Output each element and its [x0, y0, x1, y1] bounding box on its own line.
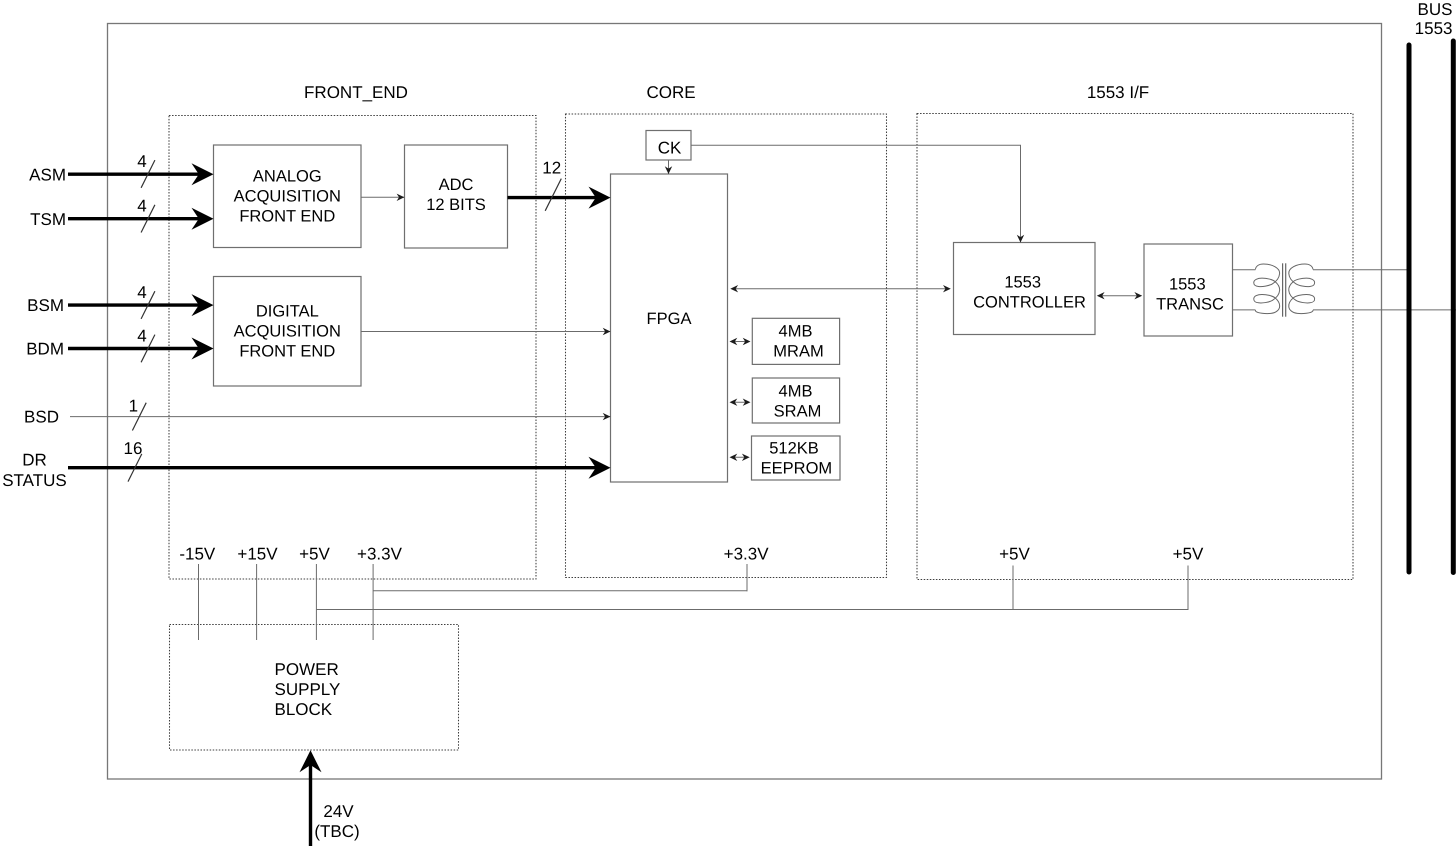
wire TSM thick arrow into analog front end — [68, 208, 214, 230]
block 4MB SRAM — [752, 378, 839, 423]
power wire +5V vertical — [315, 564, 317, 640]
wire CK to 1553 CONTROLLER (right then down) — [691, 145, 1024, 242]
wire transformer to bus bottom — [1313, 309, 1456, 311]
svg-text:BSM: BSM — [27, 296, 64, 315]
block 512KB EEPROM — [752, 436, 841, 480]
transformer T1 right winding (mirror) — [1289, 264, 1315, 314]
svg-text:ANALOG: ANALOG — [253, 168, 322, 186]
svg-text:1553: 1553 — [1169, 275, 1206, 293]
wire DR STATUS thick arrow into FPGA — [68, 457, 611, 479]
region 1553 I/F dotted box — [917, 114, 1353, 580]
wire CK down into FPGA — [665, 160, 672, 174]
block CK — [646, 131, 691, 161]
svg-text:CK: CK — [658, 139, 682, 158]
block DIGITAL ACQUISITION FRONT END — [214, 277, 362, 387]
wire 24V thick arrow into power supply — [300, 750, 322, 846]
power wire +5V I/F left vertical — [1012, 566, 1014, 611]
svg-text:4MB: 4MB — [779, 323, 813, 341]
svg-text:4: 4 — [137, 327, 146, 346]
block POWER SUPPLY BLOCK (dotted) — [170, 625, 459, 751]
svg-text:+15V: +15V — [237, 544, 278, 563]
outer board frame — [108, 24, 1382, 780]
block 4MB MRAM — [752, 318, 839, 364]
block 1553 TRANSC — [1144, 244, 1233, 336]
svg-text:+5V: +5V — [1173, 544, 1204, 563]
bus tick slash (BSM) — [141, 291, 155, 319]
block ANALOG ACQUISITION FRONT END — [214, 145, 362, 248]
block 1553 CONTROLLER — [954, 243, 1096, 335]
svg-text:DR: DR — [22, 451, 47, 470]
svg-text:POWER: POWER — [275, 660, 339, 679]
svg-text:+5V: +5V — [299, 544, 330, 563]
power wire +3.3V core vertical — [746, 564, 748, 591]
region CORE dotted box — [566, 114, 887, 578]
svg-text:MRAM: MRAM — [773, 343, 823, 361]
svg-text:TRANSC: TRANSC — [1156, 295, 1224, 313]
svg-text:4: 4 — [137, 152, 146, 171]
svg-text:4: 4 — [137, 283, 146, 302]
wire ANALOG to ADC thin arrow — [361, 194, 405, 201]
region FRONT_END dotted box — [169, 116, 536, 580]
transformer T1 left winding — [1254, 264, 1280, 314]
wire FPGA to 1553 CONTROLLER double arrow — [730, 285, 951, 292]
wire transformer to bus top — [1313, 269, 1409, 271]
svg-text:12: 12 — [542, 159, 561, 178]
svg-text:SUPPLY: SUPPLY — [275, 680, 341, 699]
wire ASM thick arrow into analog front end — [68, 163, 214, 185]
svg-text:+3.3V: +3.3V — [724, 544, 770, 563]
svg-text:16: 16 — [124, 439, 143, 458]
svg-text:512KB: 512KB — [769, 439, 819, 457]
svg-text:+5V: +5V — [999, 544, 1030, 563]
wire BSM thick arrow into digital front end — [68, 294, 214, 316]
power wire +3.3V horizontal link — [373, 590, 747, 592]
wire FPGA to MRAM double arrow — [730, 338, 751, 345]
svg-text:24V: 24V — [323, 802, 354, 821]
svg-text:SRAM: SRAM — [774, 402, 822, 420]
svg-text:FRONT END: FRONT END — [239, 343, 335, 361]
svg-text:(TBC): (TBC) — [314, 822, 359, 841]
block FPGA — [611, 174, 728, 482]
wire FPGA to SRAM double arrow — [730, 399, 751, 406]
svg-text:ACQUISITION: ACQUISITION — [234, 323, 341, 341]
power wire +5V horizontal link — [316, 609, 1188, 611]
power wire +15V — [256, 564, 258, 640]
wire BSD thin arrow into FPGA — [70, 413, 611, 420]
transformer T1 core bars — [1282, 263, 1284, 316]
power wire -15V — [198, 564, 200, 640]
svg-text:1553: 1553 — [1004, 273, 1041, 291]
BUS 1553 stub line B — [1451, 41, 1456, 573]
BUS 1553 stub line A — [1407, 45, 1412, 572]
svg-text:EEPROM: EEPROM — [761, 459, 833, 477]
bus tick slash (BSD) — [132, 403, 146, 431]
svg-text:CONTROLLER: CONTROLLER — [973, 293, 1086, 311]
power wire +3.3V vertical — [372, 564, 374, 640]
svg-text:BUS: BUS — [1418, 0, 1453, 19]
bus tick slash (TSM) — [141, 205, 155, 233]
wire 1553 CONTROLLER to 1553 TRANSC double arrow — [1097, 292, 1142, 299]
bus tick slash (BDM) — [141, 335, 155, 363]
svg-text:-15V: -15V — [179, 544, 216, 563]
svg-text:4MB: 4MB — [779, 382, 813, 400]
wire ADC to FPGA thick 12-bit bus — [508, 187, 611, 209]
bus tick slash (ASM) — [141, 160, 155, 188]
svg-text:12 BITS: 12 BITS — [426, 196, 486, 214]
svg-text:STATUS: STATUS — [2, 471, 67, 490]
wire BDM thick arrow into digital front end — [68, 338, 214, 360]
svg-text:+3.3V: +3.3V — [357, 544, 403, 563]
svg-text:CORE: CORE — [646, 83, 695, 102]
wire TRANSC to transformer bottom — [1233, 309, 1256, 311]
svg-text:1553 I/F: 1553 I/F — [1087, 83, 1149, 102]
svg-text:TSM: TSM — [30, 210, 66, 229]
bus tick slash (DR STATUS) — [128, 454, 142, 482]
svg-text:1553: 1553 — [1415, 19, 1453, 38]
wire TRANSC to transformer top — [1233, 269, 1256, 271]
power wire +5V I/F right vertical — [1187, 566, 1189, 611]
block ADC 12 BITS — [405, 145, 508, 248]
svg-text:BDM: BDM — [26, 340, 64, 359]
svg-text:BSD: BSD — [24, 408, 59, 427]
wire DIGITAL to FPGA thin arrow — [361, 328, 611, 335]
wire FPGA to EEPROM double arrow — [730, 454, 750, 461]
svg-text:ADC: ADC — [439, 176, 474, 194]
svg-text:BLOCK: BLOCK — [275, 700, 333, 719]
svg-text:FPGA: FPGA — [647, 310, 692, 328]
bus tick slash (12) — [545, 179, 561, 211]
svg-text:FRONT END: FRONT END — [239, 208, 335, 226]
svg-text:ACQUISITION: ACQUISITION — [234, 188, 341, 206]
svg-text:1: 1 — [129, 397, 138, 416]
svg-text:4: 4 — [137, 197, 146, 216]
svg-text:ASM: ASM — [29, 165, 66, 184]
svg-text:FRONT_END: FRONT_END — [304, 83, 408, 102]
svg-text:DIGITAL: DIGITAL — [256, 303, 319, 321]
